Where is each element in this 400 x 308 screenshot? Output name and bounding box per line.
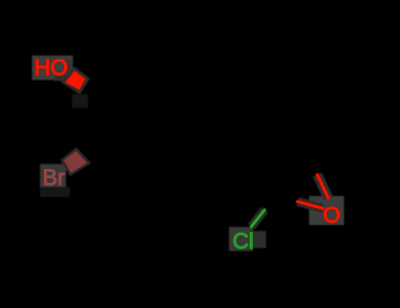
wedge bond O-C1 [65,71,85,90]
svg-text:Cl: Cl [233,229,254,254]
halo O label [309,196,344,225]
halo epoxide bond C-O shallow [298,202,324,209]
svg-text:O: O [323,202,341,227]
halo Cl bond [251,210,264,227]
soft glow copy of inks [34,55,340,254]
jpeg halo blocks [32,56,344,252]
svg-text:Br: Br [43,165,66,190]
halo Br hash wedge [61,147,92,176]
halo epoxide bond C-O steep [317,175,328,198]
svg-text:HO: HO [34,55,68,80]
halo Br label [40,164,66,188]
halo wedge O-C1 [61,67,90,95]
halo vertex C1 [72,94,88,108]
bond Cl-C [251,210,264,227]
halo HO label [32,56,73,81]
epoxide bond C-O steep [317,175,328,198]
epoxide bond C-O shallow [298,202,324,209]
halo Cl label [229,227,253,251]
hash wedge bond Br-C2 [64,151,87,173]
